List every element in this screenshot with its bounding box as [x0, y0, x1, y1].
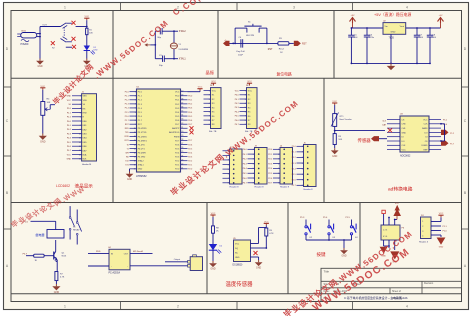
power VCC sensor — [86, 18, 88, 20]
wire crystal right vertical — [173, 31, 175, 59]
svg-text:5: 5 — [253, 168, 254, 170]
svg-text:P3.0/RXD: P3.0/RXD — [138, 128, 147, 130]
svg-text:6: 6 — [228, 173, 229, 175]
svg-text:3: 3 — [228, 160, 229, 162]
wire relay to Q1 — [55, 240, 57, 252]
svg-text:RxL.TB: RxL.TB — [209, 131, 217, 133]
header J5 — [304, 145, 317, 187]
svg-text:+5V（直流）稳压电源: +5V（直流）稳压电源 — [374, 12, 411, 17]
svg-text:11: 11 — [79, 138, 81, 140]
svg-text:VCC: VCC — [332, 101, 337, 103]
svg-text:4: 4 — [253, 163, 254, 165]
svg-text:GND: GND — [37, 66, 42, 68]
svg-text:Header 8: Header 8 — [255, 185, 265, 188]
svg-text:4: 4 — [406, 305, 408, 309]
svg-text:Heat Transfer: Heat Transfer — [340, 118, 352, 121]
svg-text:继电器: 继电器 — [36, 232, 45, 237]
svg-text:7: 7 — [209, 116, 210, 118]
power red square port — [382, 210, 385, 213]
svg-text:14: 14 — [79, 150, 81, 152]
wire regulator gnd — [390, 34, 392, 63]
svg-text:15: 15 — [79, 154, 81, 156]
svg-text:P0.7: P0.7 — [235, 124, 239, 126]
svg-text:13: 13 — [79, 146, 81, 148]
wire U4 right out — [130, 252, 153, 254]
svg-text:6: 6 — [253, 173, 254, 175]
svg-text:GND: GND — [138, 169, 143, 171]
wire ADC right joins — [440, 123, 442, 125]
section divider vertical x288 — [287, 203, 289, 294]
svg-text:35: 35 — [181, 111, 183, 113]
svg-text:8: 8 — [80, 125, 81, 127]
svg-text:GND: GND — [67, 159, 72, 161]
svg-text:16: 16 — [79, 159, 81, 161]
svg-text:7: 7 — [302, 180, 303, 182]
transistor pair upper — [61, 23, 67, 27]
svg-text:P2.2: P2.2 — [67, 117, 71, 119]
svg-text:DO: DO — [402, 141, 405, 143]
svg-text:3: 3 — [245, 99, 246, 101]
svg-text:Res2: Res2 — [279, 48, 285, 50]
svg-text:6: 6 — [278, 173, 279, 175]
wire U4 left in — [88, 252, 109, 254]
svg-text:8: 8 — [209, 120, 210, 122]
svg-text:9: 9 — [245, 124, 246, 126]
svg-text:P2.4: P2.4 — [268, 168, 272, 170]
power VCC P4 — [440, 215, 442, 217]
svg-text:P0.1: P0.1 — [67, 125, 71, 127]
svg-text:VCC: VCC — [247, 81, 252, 83]
transistor Q1 — [53, 252, 55, 260]
svg-text:PC-A2DSA: PC-A2DSA — [109, 271, 121, 274]
svg-text:DGND: DGND — [422, 145, 428, 147]
ground U6 left — [380, 247, 388, 254]
svg-text:VCC: VCC — [423, 119, 428, 121]
svg-text:20: 20 — [134, 169, 136, 171]
section divider vertical x113 — [112, 11, 114, 203]
wire OUT horizontal — [40, 26, 61, 28]
svg-text:ad转换电路: ad转换电路 — [388, 185, 413, 192]
svg-text:8: 8 — [135, 120, 136, 122]
svg-text:Vout: Vout — [400, 25, 405, 28]
svg-text:485 Send1: 485 Send1 — [133, 251, 144, 253]
svg-text:37: 37 — [181, 102, 183, 104]
svg-text:P1.1: P1.1 — [125, 96, 129, 98]
svg-text:BLK: BLK — [83, 159, 87, 161]
resistor R9 pullup — [265, 228, 268, 236]
svg-text:P2.1: P2.1 — [67, 112, 71, 114]
ground P4 — [437, 238, 446, 245]
svg-text:5: 5 — [228, 169, 229, 171]
svg-text:P2.5: P2.5 — [188, 148, 192, 150]
LED D1 — [84, 46, 90, 51]
svg-text:VCC: VCC — [235, 90, 240, 92]
svg-text:2: 2 — [209, 95, 210, 97]
svg-text:P2.3: P2.3 — [268, 163, 272, 165]
port ADC out lower — [441, 141, 449, 146]
svg-text:7: 7 — [245, 116, 246, 118]
no-connect X left — [51, 41, 55, 45]
svg-text:GND: GND — [40, 141, 46, 144]
wire VCC to RT — [334, 105, 336, 114]
svg-text:P0.2: P0.2 — [235, 103, 239, 105]
svg-text:40: 40 — [181, 90, 183, 92]
wire P4 pin2 — [431, 225, 441, 227]
resistor R6 base — [34, 254, 44, 257]
svg-text:1: 1 — [64, 6, 66, 10]
chip U6 top pins — [383, 218, 385, 225]
svg-text:P2.7: P2.7 — [188, 140, 192, 142]
svg-text:4: 4 — [422, 236, 423, 238]
svg-text:Header 8: Header 8 — [304, 188, 314, 191]
ground sensor right — [86, 59, 88, 61]
svg-text:31: 31 — [181, 127, 183, 129]
wire MCU gnd pin — [129, 169, 131, 172]
svg-text:BLA: BLA — [83, 154, 87, 157]
svg-text:P0.7: P0.7 — [188, 124, 192, 126]
port +5V reset — [223, 41, 230, 46]
svg-text:C:基于单片机的温度监控系统设计－主电路图.ddb: C:基于单片机的温度监控系统设计－主电路图.ddb — [344, 295, 408, 300]
svg-text:GND: GND — [127, 179, 132, 181]
svg-text:36: 36 — [181, 107, 183, 109]
svg-text:33: 33 — [181, 119, 183, 121]
svg-text:1: 1 — [80, 96, 81, 98]
svg-text:P0.5: P0.5 — [67, 142, 71, 144]
svg-text:5: 5 — [302, 168, 303, 170]
svg-text:10uF: 10uF — [238, 54, 244, 56]
svg-text:28: 28 — [181, 139, 183, 141]
svg-text:P0.4: P0.4 — [243, 168, 247, 170]
svg-text:P0.5: P0.5 — [188, 116, 192, 118]
svg-text:7805: 7805 — [389, 37, 395, 40]
header J3 — [255, 148, 268, 185]
svg-text:VCC: VCC — [67, 154, 72, 156]
svg-text:10K: 10K — [47, 102, 51, 104]
svg-text:Output: Output — [174, 258, 181, 261]
svg-text:29: 29 — [181, 135, 183, 137]
svg-text:9: 9 — [209, 124, 210, 126]
svg-text:1: 1 — [245, 90, 246, 92]
svg-text:P2.2: P2.2 — [188, 161, 192, 163]
wire relay top — [31, 220, 56, 222]
svg-text:8: 8 — [245, 120, 246, 122]
wire LED2 to ground — [212, 250, 214, 261]
svg-text:ADC0832: ADC0832 — [400, 154, 411, 157]
no-connect X upper — [72, 21, 76, 25]
svg-text:RST: RST — [302, 44, 307, 46]
svg-text:DS18B20: DS18B20 — [233, 264, 244, 266]
wire R1 to LED — [86, 35, 88, 46]
svg-text:P0.6: P0.6 — [188, 120, 192, 122]
ground DS18B20 — [258, 260, 260, 262]
svg-text:P1.7: P1.7 — [292, 185, 296, 187]
power VCC RP1 — [213, 83, 215, 85]
svg-text:P1.3: P1.3 — [125, 104, 129, 106]
svg-text:14: 14 — [134, 144, 136, 146]
svg-text:P0.6: P0.6 — [67, 146, 71, 148]
wire R3 to port — [289, 42, 294, 44]
svg-text:VCC: VCC — [264, 221, 269, 223]
svg-text:6: 6 — [80, 117, 81, 119]
svg-text:4: 4 — [228, 164, 229, 166]
svg-text:16: 16 — [134, 152, 136, 154]
port RST out — [294, 41, 301, 46]
svg-text:P3.1/TXD: P3.1/TXD — [138, 132, 147, 134]
section divider vertical x334 — [333, 11, 335, 79]
power VCC U6 — [395, 205, 400, 216]
svg-text:6: 6 — [245, 111, 246, 113]
svg-text:VCC: VCC — [235, 244, 240, 246]
svg-text:P0.7: P0.7 — [243, 183, 247, 185]
thermistor RT1 — [333, 114, 337, 127]
net label XTAL2 — [174, 30, 178, 32]
ground sensor left — [39, 59, 41, 61]
power bottom rail — [351, 62, 430, 64]
svg-text:INT0: INT0 — [125, 136, 129, 138]
power VCC RP2 — [249, 83, 251, 85]
svg-text:VCC: VCC — [211, 213, 216, 215]
LCD1602 connector J1 — [82, 94, 97, 161]
svg-text:P3.3/INT1: P3.3/INT1 — [138, 140, 148, 142]
svg-text:GND: GND — [341, 256, 346, 258]
svg-text:17: 17 — [134, 156, 136, 158]
svg-text:6: 6 — [135, 112, 136, 114]
wire R4 wiper tap — [49, 105, 51, 110]
svg-text:P3.7/RD: P3.7/RD — [138, 157, 146, 159]
svg-text:12: 12 — [134, 136, 136, 138]
svg-text:2: 2 — [245, 95, 246, 97]
DS18B20 U5 — [234, 240, 251, 262]
svg-text:30: 30 — [181, 131, 183, 133]
capacitor C2 top — [159, 28, 161, 34]
svg-text:P0.3: P0.3 — [235, 107, 239, 109]
svg-text:3: 3 — [302, 157, 303, 159]
svg-text:1 2 3: 1 2 3 — [383, 229, 387, 231]
svg-text:RXD: RXD — [125, 128, 130, 130]
relay contacts — [69, 206, 71, 216]
svg-text:39: 39 — [181, 94, 183, 96]
svg-text:ALE/PROG: ALE/PROG — [169, 131, 180, 134]
capacitor C5 — [350, 28, 352, 35]
svg-text:P1.5: P1.5 — [292, 174, 296, 176]
svg-text:4: 4 — [135, 104, 136, 106]
svg-text:INT1: INT1 — [125, 140, 129, 142]
svg-text:P0.4: P0.4 — [67, 138, 71, 140]
svg-text:P0.0: P0.0 — [243, 149, 247, 151]
ground MCU — [129, 172, 131, 174]
svg-text:按键: 按键 — [317, 251, 326, 258]
svg-text:2: 2 — [422, 226, 423, 228]
resistor pack RP1 — [211, 88, 222, 129]
svg-text:P0.3: P0.3 — [67, 133, 71, 135]
power VCC thermistor — [334, 103, 336, 105]
power VCC led — [212, 215, 214, 217]
svg-text:P0.6: P0.6 — [235, 120, 239, 122]
svg-text:EA/VPP: EA/VPP — [172, 127, 180, 130]
svg-text:AT89S52: AT89S52 — [136, 174, 147, 178]
wire VCC to node — [86, 20, 88, 28]
svg-text:1: 1 — [209, 90, 210, 92]
ADC U3 ADC0832 — [400, 116, 429, 152]
regulator U2 7805 — [383, 23, 406, 35]
svg-text:9: 9 — [135, 124, 136, 126]
svg-text:Header16: Header16 — [82, 163, 92, 166]
svg-text:13: 13 — [134, 140, 136, 142]
capacitor C3 bottom — [162, 56, 164, 62]
svg-text:P1.3: P1.3 — [292, 163, 296, 165]
dashed link between transistors — [63, 27, 65, 37]
svg-text:RELAY: RELAY — [73, 229, 80, 232]
svg-text:P0.2: P0.2 — [67, 129, 71, 131]
svg-text:2: 2 — [302, 152, 303, 154]
svg-text:P0.7: P0.7 — [67, 150, 71, 152]
svg-text:CLK: CLK — [402, 145, 407, 147]
svg-text:12: 12 — [79, 142, 81, 144]
svg-text:Key Pull: Key Pull — [236, 51, 245, 53]
svg-text:34: 34 — [181, 115, 183, 117]
button S1 — [246, 28, 248, 32]
svg-text:4: 4 — [406, 6, 408, 10]
svg-text:CLK: CLK — [424, 124, 429, 126]
svg-text:+9V: +9V — [351, 15, 355, 17]
chip U6 bottom pins — [383, 240, 385, 246]
section divider vertical x207 — [206, 203, 208, 294]
svg-text:+5V: +5V — [439, 15, 443, 17]
no-connect X MCU pin31 — [190, 126, 194, 130]
svg-text:P0.5: P0.5 — [243, 173, 247, 175]
svg-text:10: 10 — [134, 128, 136, 130]
svg-text:P2.6: P2.6 — [188, 144, 192, 146]
net label XTAL1 — [174, 58, 178, 60]
svg-text:2: 2 — [253, 154, 254, 156]
svg-text:P2.2: P2.2 — [268, 159, 272, 161]
svg-text:VCC: VCC — [84, 16, 89, 18]
transistor pair lower — [61, 39, 67, 43]
svg-text:24: 24 — [181, 155, 183, 157]
header J4 — [280, 148, 293, 185]
wire base resistor left — [26, 255, 34, 257]
svg-text:27: 27 — [181, 143, 183, 145]
svg-text:3: 3 — [293, 6, 295, 10]
svg-text:2: 2 — [135, 96, 136, 98]
svg-text:P0.5: P0.5 — [235, 116, 239, 118]
wire R8 to LED2 — [212, 233, 214, 244]
wire VCC to R8 — [212, 217, 214, 226]
svg-text:温度传感器: 温度传感器 — [226, 280, 254, 288]
svg-text:Title: Title — [324, 270, 330, 274]
svg-text:P0.4: P0.4 — [188, 112, 192, 114]
svg-text:26: 26 — [181, 147, 183, 149]
svg-text:P3.7: P3.7 — [23, 253, 28, 255]
svg-text:6: 6 — [209, 111, 210, 113]
svg-text:22: 22 — [181, 163, 183, 165]
port sensor input — [371, 136, 379, 141]
wire buttons rail — [306, 239, 352, 241]
capacitor C4 reset — [240, 39, 242, 47]
svg-text:P0.3: P0.3 — [243, 163, 247, 165]
svg-text:19: 19 — [134, 165, 136, 167]
section divider horizontal y293 — [11, 293, 462, 295]
wire P4 pin4 gnd — [431, 234, 441, 236]
svg-text:P1.6: P1.6 — [125, 116, 129, 118]
svg-text:XT2: XT2 — [125, 161, 128, 163]
wire crystal left + ground stub — [154, 31, 156, 59]
svg-text:RST: RST — [268, 49, 273, 51]
svg-text:P2.0: P2.0 — [268, 149, 272, 151]
svg-text:P1.2: P1.2 — [125, 100, 129, 102]
resistor pack RP2 — [247, 88, 258, 129]
svg-text:4.7K: 4.7K — [269, 233, 274, 235]
svg-text:P0.1: P0.1 — [243, 154, 247, 156]
svg-text:VCC: VCC — [395, 203, 400, 205]
svg-text:GND: GND — [439, 247, 444, 249]
svg-text:25: 25 — [181, 151, 183, 153]
resistor R3 reset — [278, 42, 289, 45]
no-connect X ADC — [388, 128, 392, 132]
resistor R4 pot — [41, 102, 45, 116]
svg-text:9: 9 — [80, 129, 81, 131]
wire R7 to ground — [55, 281, 57, 284]
svg-text:KEY-PB: KEY-PB — [246, 35, 254, 37]
wire DS pullup loop — [258, 228, 260, 244]
svg-text:P3.5/T1: P3.5/T1 — [138, 148, 146, 150]
svg-text:3: 3 — [209, 99, 210, 101]
connector J6 output — [190, 257, 202, 271]
svg-text:P0.4: P0.4 — [235, 111, 239, 113]
wire P4 pin1 vcc — [431, 221, 441, 223]
svg-text:P2.3: P2.3 — [188, 156, 192, 158]
svg-text:P3.2/INT0: P3.2/INT0 — [138, 136, 148, 138]
svg-text:GND: GND — [54, 291, 60, 294]
section divider vertical x218 — [217, 11, 219, 79]
svg-text:2: 2 — [278, 154, 279, 156]
svg-text:P2.1: P2.1 — [188, 165, 192, 167]
svg-text:DQ: DQ — [235, 248, 238, 250]
svg-text:4: 4 — [245, 103, 246, 105]
svg-text:GND: GND — [391, 32, 396, 34]
svg-text:XT1: XT1 — [125, 165, 128, 167]
svg-text:7: 7 — [253, 178, 254, 180]
svg-text:T1: T1 — [126, 148, 128, 150]
svg-text:BG1: BG1 — [22, 30, 27, 32]
svg-text:PSEN: PSEN — [174, 136, 180, 138]
svg-text:VCC: VCC — [402, 150, 407, 152]
wire VCC to R4 — [42, 90, 44, 102]
wire emitter down — [56, 262, 58, 272]
section divider horizontal y78 — [11, 77, 462, 79]
pyroelectric sensor BG1 body — [21, 33, 37, 38]
svg-text:VCC: VCC — [212, 91, 217, 93]
svg-text:1: 1 — [278, 149, 279, 151]
wire R4 to gnd — [42, 115, 44, 133]
svg-text:10K: 10K — [338, 139, 342, 141]
svg-text:1: 1 — [253, 149, 254, 151]
no-connect X DS — [254, 251, 258, 255]
power VCC LCD — [42, 88, 44, 90]
LED D2 — [209, 244, 217, 250]
wire LED to ground — [86, 51, 88, 59]
svg-text:4: 4 — [302, 163, 303, 165]
svg-text:P1.7: P1.7 — [125, 120, 129, 122]
power top rail — [352, 27, 383, 29]
svg-text:Header 8: Header 8 — [230, 185, 240, 188]
capacitor C8 — [429, 28, 431, 35]
ground power supply — [390, 63, 392, 65]
svg-text:VDD: VDD — [83, 100, 88, 102]
svg-text:P0.2: P0.2 — [188, 104, 192, 106]
svg-text:4.7K: 4.7K — [60, 277, 65, 279]
svg-text:P0.0: P0.0 — [188, 96, 192, 98]
